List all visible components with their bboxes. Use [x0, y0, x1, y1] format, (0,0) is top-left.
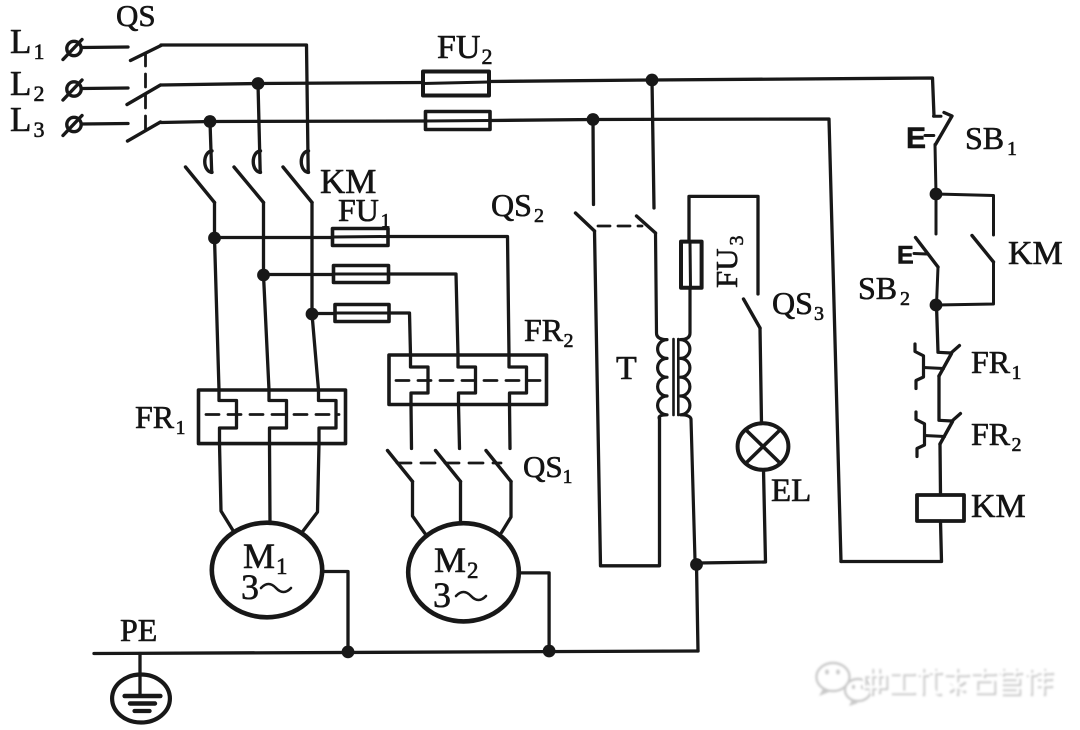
label M2 3~	[433, 540, 486, 615]
svg-text:KM: KM	[1008, 235, 1063, 272]
wire QS2 left to primary return (down, across bottom)	[595, 231, 660, 566]
wire FR1 pole1 to motor M1	[220, 444, 234, 532]
switch QS1 linkage (dashed)	[397, 462, 501, 465]
svg-text:2: 2	[564, 330, 574, 352]
label FR2 (contact)	[971, 416, 1022, 456]
wire QS3 to lamp EL	[760, 328, 762, 424]
node control phase tap	[646, 74, 659, 87]
switch QS2 right blade	[637, 216, 656, 233]
switch QS pole 2 blade	[127, 85, 161, 105]
svg-text:2: 2	[482, 44, 493, 69]
wire KM pole3 output to FR1	[312, 203, 319, 391]
ground (protective earth symbol)	[112, 675, 170, 723]
wire L2 branch drop to KM pole2	[258, 84, 260, 173]
svg-text:PE: PE	[120, 612, 157, 648]
svg-text:2: 2	[1012, 434, 1022, 456]
svg-text:1: 1	[563, 466, 573, 488]
switch QS3 blade	[744, 299, 761, 328]
wire FR2 contact to KM coil	[938, 444, 942, 495]
actuator E of SB1	[906, 122, 926, 155]
label L2	[10, 64, 45, 106]
motor M2 circle	[408, 523, 519, 621]
label PE	[120, 612, 157, 648]
fuse FU2 element b	[426, 112, 491, 130]
coil KM	[917, 495, 964, 521]
watermark text 电工技术杂货铺 (white with gray shadow, faint)	[864, 668, 1053, 695]
label SB2	[858, 270, 910, 310]
wire FU3 top run to QS3	[689, 196, 758, 294]
label QS3	[772, 285, 824, 325]
label FU2	[437, 29, 493, 69]
thermal relay FR1 heater element 3	[319, 390, 337, 444]
thermal relay FR2 heater element 2	[458, 355, 476, 405]
wire branch3 to fuse FU1c	[312, 312, 335, 315]
wire FR1 pole2 to motor M1	[268, 444, 272, 524]
svg-text:2: 2	[467, 558, 479, 583]
label SB1	[965, 120, 1017, 160]
contactor KM main contact pole2	[234, 151, 264, 203]
label KM (coil)	[971, 488, 1026, 525]
wire L2 to QS	[82, 86, 129, 90]
wire motor M2 to PE	[519, 573, 549, 651]
label KM (main contacts)	[320, 162, 376, 201]
label FR1 (contact)	[971, 344, 1022, 384]
label FR1 (heater box)	[135, 399, 186, 439]
svg-text:2: 2	[34, 81, 45, 106]
svg-text:FR: FR	[524, 312, 564, 348]
switch QS linkage (dashed)	[144, 53, 147, 134]
wire FR2 pole1 to QS1	[409, 405, 413, 449]
label FU3 (rotated)	[709, 236, 748, 289]
wire KM pole1 output to FR1	[215, 203, 220, 391]
svg-text:3: 3	[34, 117, 45, 142]
wire SB2 node to FR1 contact	[937, 305, 939, 352]
node M2 on PE	[543, 645, 556, 658]
svg-text:FR: FR	[971, 344, 1011, 380]
svg-text:3: 3	[814, 303, 824, 325]
svg-text:1: 1	[276, 554, 288, 579]
svg-text:1: 1	[34, 39, 45, 64]
svg-text:FU: FU	[437, 29, 480, 66]
wire KM coil to control return	[841, 521, 942, 562]
wire motor M1 to PE	[322, 572, 348, 652]
svg-text:L: L	[10, 100, 31, 139]
svg-text:E: E	[897, 242, 914, 270]
switch QS pole 1 blade	[131, 46, 162, 61]
thermal relay FR1 heater box	[199, 390, 346, 444]
svg-text:T: T	[616, 350, 637, 387]
svg-text:1: 1	[1012, 362, 1022, 384]
terminal L1	[63, 40, 82, 60]
motor M1 circle	[212, 523, 322, 618]
contactor KM main contact pole3	[283, 151, 312, 203]
wire PE bus	[94, 651, 698, 654]
wire junction down to PE bus	[697, 565, 699, 652]
svg-text:FR: FR	[971, 416, 1011, 452]
wire FU2b to node	[490, 120, 593, 121]
svg-text:3: 3	[433, 575, 451, 615]
wire QS2 left pole feed	[591, 120, 595, 205]
thermal relay FR1 heater element 2	[269, 390, 287, 444]
svg-text:3: 3	[726, 236, 748, 246]
svg-text:3: 3	[241, 567, 259, 607]
thermal relay FR1 heater element 1	[219, 390, 237, 444]
contact FR2 (NC thermal)	[916, 412, 961, 457]
label KM (auxiliary)	[1008, 235, 1063, 272]
fuse FU2 element a	[423, 72, 489, 96]
switch QS1 pole2 blade	[436, 451, 461, 482]
wire FR1 to FR2 contact	[937, 376, 940, 420]
thermal relay FR2 heater element 3	[509, 355, 527, 405]
switch QS1 pole3 blade	[486, 451, 511, 482]
svg-text:QS: QS	[772, 285, 813, 321]
wire KM pole2 output to FR1	[264, 203, 270, 391]
wire control return run and long right-side drop	[593, 119, 841, 562]
svg-text:QS: QS	[491, 187, 532, 223]
actuator E of SB2	[897, 242, 914, 270]
wire L3 to QS	[82, 122, 129, 126]
node FU1 branch1	[208, 232, 221, 245]
node L3 branch	[204, 115, 217, 128]
svg-text:KM: KM	[971, 488, 1026, 525]
thermal relay FR2 dashed linkage	[396, 379, 540, 382]
wire FU1c to FR2 pole1	[389, 313, 411, 355]
transformer T primary winding	[656, 233, 668, 419]
svg-text:2: 2	[900, 288, 910, 310]
wire FU1a to FR2 pole3	[388, 237, 509, 356]
wire QS1 pole2 to motor M2	[459, 482, 462, 524]
svg-text:FU: FU	[709, 248, 744, 288]
wire control phase to SB1 drop	[652, 78, 934, 116]
node FU1 branch3	[306, 308, 319, 321]
terminal L2	[63, 80, 82, 100]
switch QS pole 3 blade	[128, 122, 161, 141]
node SB1 output	[930, 188, 943, 201]
svg-text:QS: QS	[116, 0, 156, 33]
label FR2 (heater box)	[524, 312, 574, 352]
wire lamp EL return	[697, 470, 766, 565]
label EL	[771, 473, 811, 509]
svg-text:2: 2	[534, 205, 544, 227]
terminal L3	[63, 116, 82, 136]
contact KM auxiliary (NO, parallel branch)	[936, 194, 994, 305]
node control return tap	[587, 113, 600, 126]
node FU1 branch2	[257, 269, 270, 282]
label QS	[116, 0, 156, 33]
label L1	[10, 22, 45, 64]
pushbutton SB2 (NO, E actuator)	[914, 194, 938, 305]
wire L3 branch drop to KM pole1	[210, 122, 212, 173]
watermark logo (wechat bubbles, faint)	[817, 663, 872, 706]
label FU1	[338, 192, 391, 232]
fuse FU1 element c	[335, 305, 389, 322]
contact FR1 (NC thermal)	[915, 344, 960, 389]
wire FU1b to FR2 pole2	[389, 274, 459, 355]
wire L1 to QS	[82, 45, 129, 49]
fuse FU1 element a	[333, 229, 389, 246]
svg-text:FR: FR	[135, 399, 175, 435]
svg-text:SB: SB	[858, 270, 897, 306]
svg-text:1: 1	[176, 417, 186, 439]
svg-text:SB: SB	[965, 120, 1004, 156]
thermal relay FR2 heater element 1	[411, 355, 429, 405]
svg-text:L: L	[10, 22, 31, 61]
wire L3 phase top run	[161, 121, 426, 123]
fuse FU1 element b	[334, 266, 389, 283]
fuse FU3	[681, 242, 702, 288]
svg-text:E: E	[906, 122, 926, 155]
wire QS2 right pole feed	[652, 80, 654, 208]
wire FR2 pole2 to QS1	[459, 405, 460, 449]
wire QS1 pole3 to motor M2	[502, 482, 512, 533]
pushbutton SB1 (NC, E actuator)	[925, 113, 952, 195]
switch QS1 pole1 blade	[388, 451, 413, 482]
wire branch2 to fuse FU1b	[264, 273, 334, 276]
svg-text:QS: QS	[523, 449, 563, 484]
node SB2 output	[930, 299, 943, 312]
node L2 branch	[252, 77, 265, 90]
wire FR2 pole3 to QS1	[508, 405, 512, 449]
label L3	[10, 100, 45, 142]
svg-text:EL: EL	[771, 473, 811, 509]
svg-text:1: 1	[1007, 138, 1017, 160]
node M1 on PE	[342, 646, 355, 659]
thermal relay FR2 heater box	[389, 355, 547, 405]
node secondary/EL/PE junction	[690, 558, 703, 571]
label M1 3~	[241, 536, 291, 607]
wire QS1 pole1 to motor M2	[413, 482, 426, 534]
wire FR1 pole3 to motor M1	[303, 444, 320, 532]
wire L1 phase to KM pole3 (top run and drop)	[161, 45, 308, 173]
label QS1	[523, 449, 573, 488]
wire earth stem	[138, 654, 141, 695]
transformer T secondary winding	[681, 288, 697, 565]
contactor KM main contact pole1	[186, 151, 215, 203]
thermal relay FR1 dashed linkage	[206, 413, 339, 416]
wire L2 phase top run	[161, 83, 423, 86]
wire FU2a to node	[489, 80, 652, 82]
transformer T core	[674, 339, 679, 415]
svg-text:M: M	[434, 540, 466, 580]
label T	[616, 350, 637, 387]
wire branch1 to fuse FU1a	[215, 236, 333, 239]
svg-text:FU: FU	[338, 192, 379, 228]
label QS2	[491, 187, 544, 227]
switch QS2 left blade	[576, 213, 595, 231]
svg-text:L: L	[10, 64, 31, 103]
lamp EL	[738, 423, 789, 470]
switch QS2 linkage (dashed)	[598, 225, 642, 228]
